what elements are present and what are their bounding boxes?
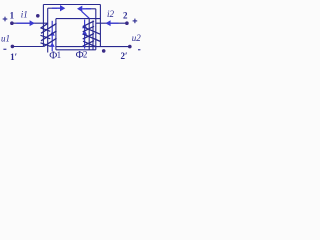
svg-text:1: 1 [10, 11, 15, 21]
coil 2 inner vertical [92, 21, 94, 50]
wire W2 from coil 2 to terminal 2 [96, 22, 127, 24]
label - (left) [3, 49, 6, 50]
core window right vertical [88, 19, 90, 50]
flux arrow line in coil 1 [50, 21, 55, 51]
svg-text:u1: u1 [1, 33, 10, 43]
current arrow i1 [17, 20, 35, 26]
core window left vertical [55, 19, 57, 50]
coil 2 winding turns [83, 21, 101, 46]
outer flux path top [43, 4, 100, 6]
label + (left) [3, 17, 8, 22]
wire W1 from terminal 1 to coil 1 [12, 22, 48, 24]
flux loop 2 diagonal return [82, 11, 90, 18]
svg-text:i1: i1 [21, 9, 28, 19]
flux loop 2 vertical [95, 9, 97, 50]
current arrow i2 [105, 20, 118, 26]
wire W1' from terminal 1' to coil 1 [12, 46, 43, 48]
node 1' terminal dot [11, 45, 15, 49]
coil 1 winding turns [41, 23, 57, 46]
flux arrow line in coil 2 [82, 20, 87, 49]
flux loop 1 vertical [47, 8, 49, 52]
node 2' terminal dot [128, 45, 132, 49]
svg-text:1: 1 [57, 50, 62, 60]
flux return bottom [56, 49, 96, 51]
label - (right) [138, 49, 140, 50]
wire W2' bottom rail from window to terminal 2' [56, 46, 130, 48]
core window top [56, 18, 100, 20]
flux loop 2 top with arrow [86, 8, 96, 10]
polarity dot coil 1 [36, 14, 40, 18]
flux loop 1 top with arrow [48, 7, 57, 9]
outer flux path right vertical [99, 5, 101, 47]
polarity dot coil 2 [102, 49, 106, 53]
node 2 terminal dot [125, 21, 129, 25]
label + (right) [133, 19, 138, 24]
svg-text:i2: i2 [107, 9, 115, 19]
outer flux path left vertical [42, 5, 44, 47]
svg-text:2: 2 [123, 10, 128, 20]
svg-text:u2: u2 [132, 33, 142, 43]
svg-text:2: 2 [83, 50, 88, 60]
svg-text:1′: 1′ [10, 52, 17, 62]
node 1 terminal dot [10, 21, 14, 25]
svg-text:2′: 2′ [120, 51, 127, 61]
